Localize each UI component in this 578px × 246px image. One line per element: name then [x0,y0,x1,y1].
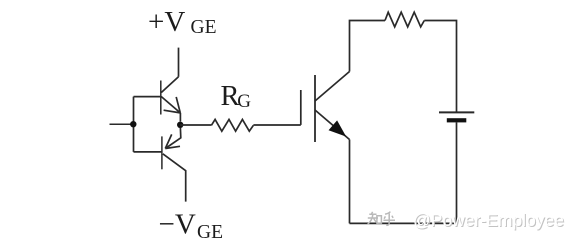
wire +VGE lead to Q1 collector [178,48,180,77]
wire battery to bottom rail [350,122,457,223]
wire top rail to battery [424,21,456,113]
transistor Q1 (NPN, upper) [134,77,181,122]
wire IGBT collector to top rail [350,21,386,72]
wire base vertical [133,97,135,152]
svg-text:@Power-Employee: @Power-Employee [413,210,564,230]
battery V1 [439,112,474,122]
node A (left junction dot) [130,121,136,127]
svg-text:+V: +V [148,6,185,38]
svg-text:GE: GE [197,222,223,243]
resistor R (load, top) [385,12,424,27]
svg-text:−V: −V [159,209,196,241]
watermark @Power-Employee [413,210,565,231]
watermark 知乎 glyphs [368,212,395,226]
wire IGBT emitter to bottom rail [349,140,351,224]
resistor RG [211,119,253,131]
resistor RG value label [221,81,252,112]
svg-text:GE: GE [191,17,217,38]
transistor Q2 (PNP, lower) [134,128,186,202]
wire input [110,123,134,125]
wire RG to gate [253,124,300,126]
node -VGE label [159,209,224,243]
node +VGE label [148,6,217,38]
IGBT U1 [301,72,350,143]
wire node B to RG [180,124,211,126]
node B (right junction dot) [177,122,183,128]
svg-text:G: G [237,91,251,112]
